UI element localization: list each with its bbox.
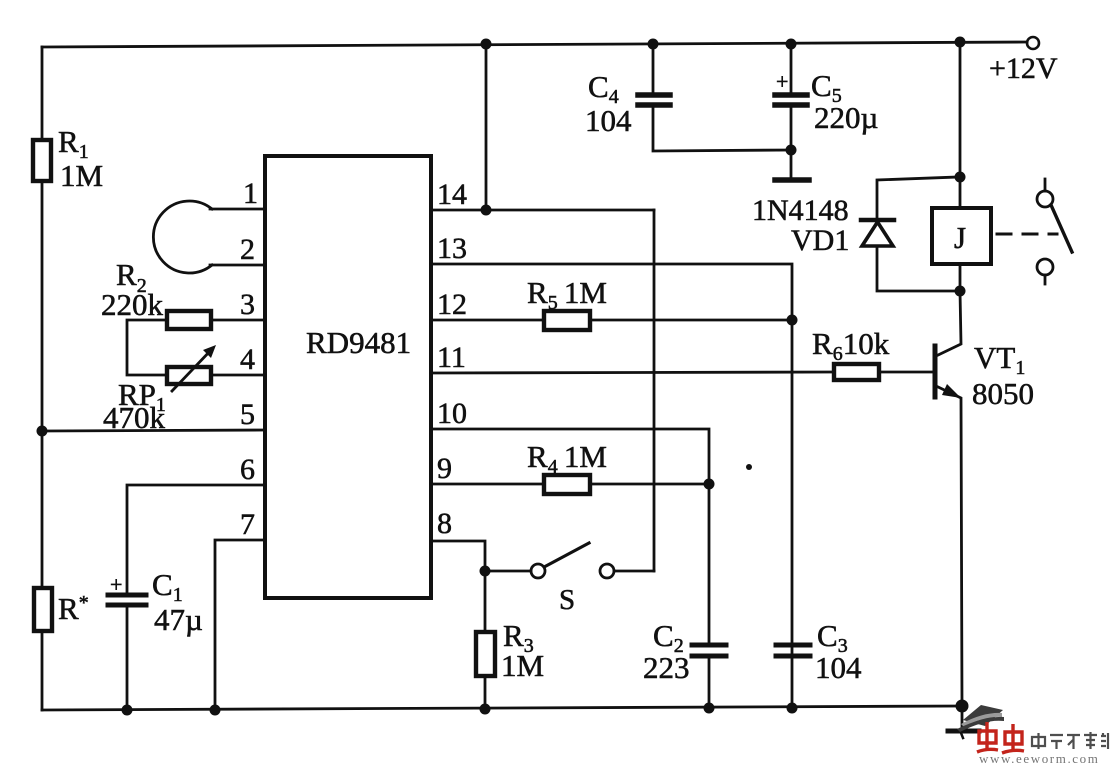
svg-text:R*: R* [58, 591, 89, 626]
wire pin 10 [431, 429, 709, 644]
wire R2 left [127, 320, 167, 375]
resistor R3 [476, 632, 495, 676]
resistor R1 [33, 140, 51, 181]
svg-text:1M: 1M [501, 648, 544, 683]
IC U1 RD9481 [265, 156, 431, 598]
node relay bottom [955, 286, 966, 297]
capacitor C1 [108, 593, 146, 598]
diode VD1 [861, 218, 894, 223]
wire relay bottom [959, 264, 962, 291]
wire C2 bottom [708, 658, 711, 708]
svg-text:C1: C1 [152, 567, 183, 606]
node emitter-bottom [956, 700, 969, 713]
wire left vertical top [41, 47, 44, 140]
node top-C5 [786, 39, 797, 50]
svg-text:104: 104 [585, 103, 632, 138]
svg-text:47µ: 47µ [154, 602, 203, 637]
stray dot [746, 464, 752, 470]
capacitor C5 [775, 92, 807, 98]
wire top to pin14 vertical [485, 44, 488, 210]
resistor R6 [834, 364, 879, 380]
svg-text:7: 7 [240, 508, 255, 541]
svg-text:5: 5 [240, 398, 255, 431]
wire pin8 to switch [485, 570, 531, 573]
dashed link relay to switch [997, 233, 1057, 236]
transistor VT1 bar [933, 346, 938, 397]
wire pin 8 [431, 541, 485, 571]
svg-text:104: 104 [815, 650, 862, 685]
svg-text:470k: 470k [103, 400, 166, 435]
ground stub bottom [961, 706, 964, 729]
wire C4 bottom [653, 108, 791, 151]
switch contact top stub [1044, 179, 1047, 191]
wire pin 9 left [431, 483, 544, 486]
wire pin 3 right [211, 319, 265, 322]
wire R3 bottom [484, 676, 487, 709]
svg-text:1M: 1M [60, 158, 103, 193]
node C1-bottom [122, 705, 133, 716]
svg-text:VT1: VT1 [974, 340, 1025, 379]
svg-text:J: J [954, 220, 966, 255]
node pin5-left [37, 426, 48, 437]
svg-text:220k: 220k [101, 287, 164, 322]
wire bottom rail [42, 706, 962, 710]
svg-text:R5 1M: R5 1M [527, 275, 607, 314]
svg-text:www.eeworm.com: www.eeworm.com [979, 751, 1099, 765]
ground bar C5 [775, 177, 809, 183]
diode VD1 top wire [877, 177, 958, 220]
relay J box [932, 208, 991, 264]
wire C1 bottom [126, 607, 129, 710]
wire pin 13 [431, 264, 792, 708]
svg-text:12: 12 [437, 288, 467, 321]
watermark chinese gray text [1032, 732, 1108, 749]
resistor R* [34, 588, 52, 631]
wire pin 6 [127, 485, 265, 592]
transistor VT1 emitter [936, 386, 962, 706]
transistor emitter arrow [942, 384, 961, 398]
node top-pin14 [481, 39, 492, 50]
svg-text:223: 223 [643, 650, 690, 685]
switch S lever [546, 543, 589, 566]
wire pin 12 left [431, 319, 544, 322]
node pin12-C3 [787, 315, 798, 326]
svg-text:220µ: 220µ [814, 100, 878, 135]
capacitor C5 top wire [790, 44, 793, 92]
switch S contact left [531, 564, 545, 578]
RP1 arrow [172, 349, 212, 391]
capacitor C4 [638, 92, 670, 98]
ground bar bottom [948, 729, 979, 734]
node C4-C5 [786, 145, 797, 156]
svg-text:9: 9 [437, 452, 452, 485]
wire pin 5 [42, 430, 265, 431]
sensor element circle [153, 201, 212, 273]
svg-text:S: S [559, 584, 575, 616]
wire R3 top [484, 571, 487, 632]
wire +12V branch vertical [959, 42, 962, 208]
wire left vertical middle [41, 181, 44, 588]
svg-text:VD1: VD1 [791, 224, 849, 257]
wire pin 2 [210, 264, 265, 267]
transistor VT1 collector [936, 291, 961, 356]
watermark logo cap [957, 705, 1004, 732]
svg-text:RD9481: RD9481 [306, 325, 411, 360]
wire pin 4 [211, 374, 265, 377]
svg-text:+12V: +12V [989, 52, 1058, 85]
node top-C4 [648, 39, 659, 50]
svg-text:8: 8 [437, 507, 452, 540]
wire pin 9 right [590, 483, 709, 486]
pin numbers [240, 177, 467, 541]
switch blade [1051, 205, 1072, 252]
node pin9-R4 [704, 479, 715, 490]
switch S contact right [600, 564, 614, 578]
resistor R4 [544, 475, 590, 494]
wire R6 to base [879, 371, 932, 374]
svg-text:2: 2 [240, 233, 255, 266]
terminal +12V [1027, 37, 1039, 49]
svg-text:6: 6 [240, 453, 255, 486]
svg-text:4: 4 [240, 343, 255, 376]
wire pin 12 right [590, 319, 792, 322]
capacitor C2 [692, 643, 726, 648]
svg-text:8050: 8050 [972, 376, 1034, 411]
svg-text:11: 11 [437, 341, 466, 374]
svg-text:3: 3 [240, 288, 255, 321]
node pin7-bottom [210, 705, 221, 716]
node top-relay [955, 37, 966, 48]
svg-text:10: 10 [437, 397, 467, 430]
resistor R2 [167, 311, 211, 329]
switch contact bottom stub [1044, 275, 1047, 284]
potentiometer RP1 [167, 367, 211, 384]
wire pin14 net vertical [653, 210, 656, 571]
svg-text:+: + [776, 69, 788, 94]
node C3-bottom [787, 703, 798, 714]
resistor R5 [544, 311, 590, 330]
capacitor C3 [776, 643, 810, 648]
wire C5 bottom [790, 108, 793, 178]
svg-text:1N4148: 1N4148 [752, 194, 849, 227]
wire left vertical bottom [41, 631, 44, 710]
switch contact bottom [1037, 259, 1053, 275]
wire pin 1 [210, 208, 265, 211]
svg-text:1: 1 [243, 177, 258, 210]
wire top rail [42, 42, 1027, 47]
svg-text:13: 13 [437, 232, 467, 265]
diode VD1 bottom wire [877, 246, 958, 291]
node C2-bottom [704, 703, 715, 714]
wire pin 11 [431, 372, 834, 373]
watermark chongchong red glyphs [977, 722, 1024, 753]
svg-text:+: + [110, 572, 122, 597]
wire pin 14 [431, 209, 654, 212]
capacitor C4 top wire [652, 44, 655, 92]
svg-text:R4 1M: R4 1M [527, 439, 607, 478]
wire pin 7 [215, 540, 265, 710]
wire switch to pin14 net [614, 570, 654, 573]
svg-text:14: 14 [437, 178, 467, 211]
svg-text:R610k: R610k [812, 326, 890, 365]
node pin14 [481, 205, 492, 216]
node pin8-S [480, 566, 491, 577]
switch contact top [1037, 191, 1053, 207]
node relay top [955, 172, 966, 183]
node R3-bottom [480, 704, 491, 715]
